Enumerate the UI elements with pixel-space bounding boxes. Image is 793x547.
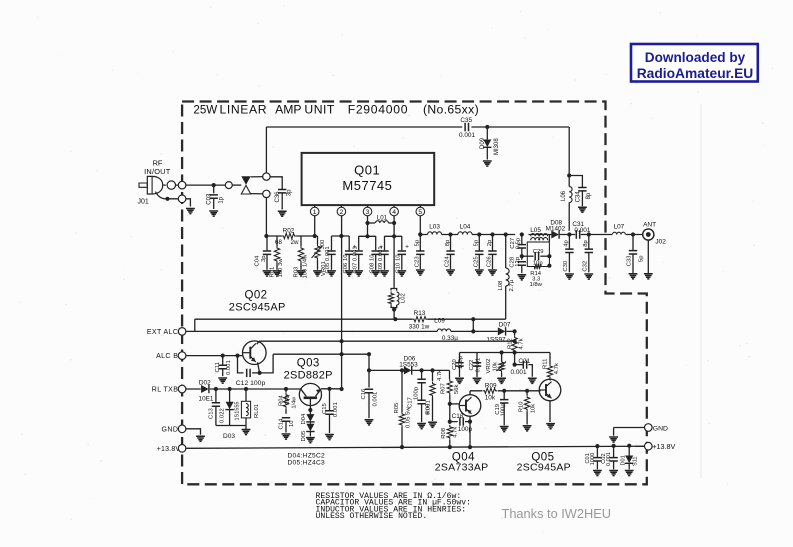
- svg-text:8p: 8p: [445, 239, 451, 246]
- terminal +13.8V left: [178, 445, 186, 453]
- label C27: [510, 238, 516, 249]
- svg-text:1/4w: 1/4w: [291, 397, 297, 409]
- label C04 C04: [255, 255, 261, 267]
- resistor R06: [430, 370, 435, 421]
- svg-text:R01: R01: [270, 267, 276, 278]
- node R12 rail: [513, 339, 517, 343]
- resistor R09: [483, 388, 498, 393]
- svg-text:2SC945AP: 2SC945AP: [517, 462, 571, 474]
- svg-text:C21: C21: [518, 358, 530, 365]
- node L06/C34 junction: [567, 173, 571, 177]
- capacitor C06: [345, 236, 353, 270]
- label R12: [507, 338, 513, 349]
- pin 3 circle: [363, 205, 372, 216]
- capacitor C17b: [417, 400, 425, 422]
- svg-text:C11: C11: [215, 362, 221, 372]
- label C23 value: [415, 239, 421, 246]
- ground (C17): [417, 424, 426, 429]
- label 2SD882P: [284, 369, 333, 381]
- wire R07 to Q04 base: [448, 402, 460, 406]
- svg-text:100 3w: 100 3w: [278, 258, 284, 278]
- node C26: [490, 232, 494, 236]
- svg-text:F2904000: F2904000: [348, 103, 409, 117]
- capacitor C27: [518, 235, 526, 260]
- label R14 3.3: [532, 277, 541, 283]
- label C19: [495, 404, 501, 415]
- node L08 tap: [504, 232, 508, 236]
- wire right GND stub: [614, 428, 645, 436]
- label R05: [394, 402, 400, 414]
- label C30 value 4p: [563, 240, 569, 247]
- wire J01 tip: [163, 184, 179, 186]
- inductor L03: [428, 232, 442, 235]
- svg-text:R13: R13: [414, 310, 426, 317]
- op-amp U1 Q01 module box: [302, 153, 435, 205]
- ground (C22): [473, 378, 482, 383]
- inductor L04: [458, 232, 472, 235]
- svg-text:C15: C15: [322, 402, 328, 414]
- wire upper throw to C36: [270, 177, 282, 190]
- notes unless otherwise: [316, 512, 428, 521]
- wire top rail drop to L06: [568, 127, 570, 187]
- thanks credit: [502, 506, 612, 521]
- capacitor C17a: [417, 370, 425, 400]
- svg-text:4p: 4p: [563, 240, 569, 247]
- node pin1 bias: [313, 234, 317, 238]
- node D06 left: [367, 368, 371, 372]
- RadioAmateur badge box: [631, 44, 758, 82]
- label C20: [452, 358, 458, 370]
- title (No.65xx): [423, 103, 479, 117]
- label C21: [518, 358, 530, 365]
- svg-text:C14: C14: [279, 418, 285, 430]
- svg-text:2SC945AP: 2SC945AP: [229, 301, 286, 313]
- label R12 4.7k: [518, 338, 524, 349]
- svg-text:D09: D09: [480, 137, 486, 149]
- label C04 3p: [261, 255, 267, 262]
- label C28 value: [515, 256, 521, 267]
- label Q05: [531, 451, 554, 463]
- label D02: [199, 380, 211, 387]
- terminal +13.8V right: [645, 442, 653, 450]
- ground (C10): [397, 271, 406, 276]
- J01 sleeve lead: [156, 192, 179, 201]
- svg-text:+13.8V: +13.8V: [652, 442, 675, 451]
- svg-text:1SS97: 1SS97: [486, 336, 506, 343]
- svg-text:L05: L05: [530, 227, 541, 234]
- plus mark C08: [379, 244, 383, 251]
- ground (C24): [446, 270, 455, 275]
- ground (D09): [483, 161, 492, 166]
- node R12 top: [513, 329, 517, 333]
- svg-text:R12: R12: [507, 338, 513, 349]
- label R11 4.7k: [554, 363, 560, 374]
- svg-text:4.7k: 4.7k: [518, 338, 524, 349]
- label C05 C05 0.001: [325, 246, 331, 273]
- label C12 100p: [236, 380, 266, 387]
- node bias relay: [264, 234, 268, 238]
- label C07 C07 0.001: [352, 246, 358, 273]
- label D09: [480, 137, 486, 149]
- node C17 tap: [420, 368, 424, 372]
- trimpot VR02: [497, 360, 506, 377]
- node box right: [547, 254, 551, 268]
- svg-text:56k: 56k: [454, 384, 460, 394]
- label D03: [223, 433, 235, 440]
- svg-text:10k: 10k: [531, 404, 537, 414]
- label C13 value: [220, 408, 226, 423]
- pin 2 circle: [337, 205, 346, 216]
- label VR01 300: [320, 239, 326, 250]
- svg-text:1S553: 1S553: [399, 361, 418, 368]
- svg-text:ALC B: ALC B: [156, 353, 178, 360]
- label 1S553: [399, 361, 418, 368]
- label R13 330 1w: [409, 323, 430, 330]
- capacitor C03: [210, 185, 218, 209]
- resistor R04: [283, 389, 288, 414]
- label RF IN/OUT: [144, 159, 171, 177]
- ground (C26): [488, 270, 497, 275]
- ground (C04): [263, 271, 272, 276]
- svg-text:MI308: MI308: [494, 138, 500, 155]
- capacitor C01: [593, 444, 601, 469]
- capacitor C16: [365, 389, 373, 418]
- resistor R14: [532, 264, 543, 269]
- label C36: [275, 191, 281, 203]
- label R06 4.7k: [437, 370, 443, 381]
- svg-text:C04: C04: [255, 255, 261, 267]
- ground (C01): [593, 471, 602, 476]
- label R08 4.7k: [453, 427, 459, 438]
- svg-text:1/8w: 1/8w: [529, 282, 542, 288]
- svg-text:L04: L04: [460, 224, 471, 231]
- pin 1 circle: [310, 205, 319, 216]
- label L02: [401, 293, 407, 303]
- ground (left GND): [196, 436, 205, 441]
- label C15 value: [333, 402, 339, 417]
- svg-text:5p: 5p: [638, 255, 644, 262]
- capacitor C30: [565, 235, 573, 273]
- capacitor C34: [578, 188, 586, 207]
- wire R09 line: [470, 390, 541, 392]
- capacitor C23: [416, 235, 424, 270]
- label VR02: [486, 359, 492, 374]
- label C14: [279, 418, 285, 430]
- label 2SA733AP: [435, 462, 489, 474]
- svg-text:2: 2: [340, 209, 344, 216]
- svg-text:3: 3: [366, 209, 370, 216]
- ground (VR01): [313, 271, 322, 276]
- node D09 branch: [485, 125, 489, 129]
- ground (C03): [209, 211, 218, 216]
- label C33: [626, 255, 632, 267]
- transistor Q05: [539, 379, 561, 401]
- node C27 tap: [520, 232, 524, 236]
- svg-text:C10 10: C10 10: [396, 254, 402, 274]
- svg-text:C34: C34: [575, 191, 581, 203]
- label R09 10k: [485, 394, 496, 401]
- inductor L09: [437, 329, 451, 331]
- capacitor C20: [455, 362, 463, 378]
- label C25: [473, 256, 479, 268]
- label C18 100p: [458, 426, 473, 433]
- svg-text:5: 5: [418, 209, 422, 216]
- diode D06: [404, 366, 412, 374]
- node pin4 stub: [392, 234, 396, 238]
- wire bias feed row: [460, 353, 502, 363]
- label D01: [620, 455, 626, 465]
- node C19 tap: [502, 389, 506, 393]
- svg-text:C03: C03: [207, 193, 213, 205]
- capacitor C19: [500, 391, 508, 426]
- ground (RL01): [242, 430, 251, 435]
- ground (C19): [500, 427, 509, 432]
- label C06 C06 10: [343, 254, 349, 274]
- svg-text:M1402: M1402: [546, 226, 566, 233]
- svg-text:R02: R02: [283, 227, 295, 234]
- ground (R10): [523, 426, 532, 431]
- label R03 100 1/4w: [303, 254, 309, 279]
- svg-text:4: 4: [392, 209, 396, 216]
- label C17 0.001: [425, 400, 431, 415]
- wire RL TXB line: [185, 388, 300, 390]
- label C28: [509, 256, 515, 268]
- plus mark C06: [353, 244, 357, 251]
- svg-text:0.5p: 0.5p: [515, 237, 521, 249]
- node C03 junction: [212, 183, 216, 187]
- svg-text:1000: 1000: [590, 453, 596, 465]
- svg-text:RL01: RL01: [254, 404, 260, 418]
- label C09 C09 0.001: [378, 246, 384, 273]
- svg-text:0.001: 0.001: [606, 452, 612, 466]
- notes inductor values: [316, 505, 467, 514]
- diode D04: [306, 414, 314, 424]
- svg-text:L08: L08: [498, 280, 504, 291]
- svg-text:C32: C32: [583, 261, 589, 272]
- label R07: [441, 383, 447, 394]
- svg-text:0.001: 0.001: [333, 402, 339, 417]
- svg-text:2w: 2w: [291, 239, 299, 246]
- ground (C20): [455, 378, 464, 383]
- label C08 C08 10: [369, 254, 375, 274]
- relay RL01: [241, 389, 250, 430]
- svg-text:LINEAR: LINEAR: [220, 103, 268, 117]
- svg-text:330 1w: 330 1w: [409, 323, 430, 330]
- label L08 value: [509, 279, 515, 291]
- node C23: [418, 232, 422, 236]
- svg-text:S11: S11: [633, 456, 639, 466]
- plus mark C10: [405, 244, 409, 251]
- label C23: [414, 256, 420, 268]
- label MI308: [494, 138, 500, 155]
- node R10 tap: [525, 389, 529, 393]
- ground (VR02): [497, 378, 506, 383]
- ground (C11): [218, 378, 227, 383]
- label D04: [301, 413, 307, 425]
- inductor L08: [506, 235, 509, 320]
- svg-text:UNLESS OTHERWISE NOTED.: UNLESS OTHERWISE NOTED.: [316, 512, 428, 521]
- terminal GND right: [645, 424, 653, 432]
- svg-text:Q02: Q02: [245, 289, 268, 301]
- svg-text:RF: RF: [153, 159, 163, 168]
- svg-text:2SA733AP: 2SA733AP: [435, 462, 489, 474]
- svg-text:3p: 3p: [287, 189, 293, 196]
- label C27 value: [515, 237, 521, 249]
- wire RF input line: [185, 184, 225, 186]
- label R10 10k: [531, 404, 537, 414]
- label M57745: [342, 178, 392, 193]
- capacitor C15: [325, 389, 333, 433]
- faint scan fold line: [700, 104, 702, 478]
- capacitor C35: [465, 123, 468, 131]
- svg-text:25W: 25W: [193, 104, 217, 117]
- wire Q02 emitter to C12: [252, 362, 262, 375]
- svg-text:L09: L09: [434, 318, 445, 325]
- svg-text:R06: R06: [426, 403, 432, 415]
- label S11: [633, 456, 639, 466]
- label R13: [414, 310, 426, 317]
- resistor R12: [512, 331, 517, 352]
- wire Q04 emitter down: [468, 416, 472, 447]
- svg-text:RL TXB: RL TXB: [152, 387, 179, 394]
- svg-text:10k: 10k: [492, 362, 498, 372]
- capacitor C18: [460, 417, 470, 425]
- node pin2 rail: [340, 339, 344, 343]
- ground (C23): [416, 270, 425, 275]
- svg-text:C22: C22: [469, 360, 475, 371]
- label C13: [208, 407, 214, 419]
- svg-text:10E1: 10E1: [199, 395, 214, 402]
- wire pin4 stub: [385, 235, 402, 237]
- label L06: [561, 190, 567, 201]
- label C35: [460, 117, 472, 124]
- capacitor C05: [327, 236, 335, 270]
- label C16 value: [373, 392, 379, 407]
- label C35 value: [459, 132, 475, 139]
- svg-text:UNIT: UNIT: [304, 103, 334, 117]
- diode D08: [551, 230, 559, 238]
- capacitor C07: [355, 236, 363, 270]
- title F2904000: [348, 103, 409, 117]
- svg-text:R11: R11: [543, 359, 549, 369]
- ground (J02): [644, 274, 653, 279]
- svg-text:J02: J02: [655, 239, 666, 246]
- label L01: [377, 215, 388, 222]
- wire contact to lower throw: [251, 193, 264, 195]
- label J02: [655, 239, 666, 246]
- trimpot VR01: [312, 236, 323, 270]
- wire C18 base leg: [450, 404, 458, 422]
- label M1402: [546, 226, 566, 233]
- diode D03: [225, 389, 233, 426]
- label R09: [485, 382, 497, 389]
- label C34 value 8p: [586, 192, 592, 199]
- inductor L02: [388, 289, 399, 320]
- svg-text:ANT: ANT: [643, 222, 656, 229]
- svg-text:C24: C24: [445, 256, 451, 268]
- diode D02: [201, 385, 209, 393]
- svg-text:D02: D02: [199, 380, 211, 387]
- label C22 0.001: [475, 358, 481, 373]
- label Q02: [245, 289, 268, 301]
- label R04: [278, 394, 284, 406]
- svg-text:+: +: [353, 244, 357, 251]
- diode D05: [306, 424, 314, 437]
- node pin3 stub: [365, 234, 369, 238]
- label C17: [408, 397, 414, 408]
- svg-text:0.001: 0.001: [226, 360, 232, 375]
- diode D07: [498, 327, 506, 335]
- svg-text:R03: R03: [294, 266, 300, 278]
- svg-text:C29: C29: [533, 249, 544, 255]
- svg-text:4.7k: 4.7k: [554, 363, 560, 374]
- label R01 100 3w: [278, 258, 284, 278]
- ground (C15): [325, 435, 334, 440]
- label C02: [601, 453, 607, 463]
- capacitor C02: [609, 444, 617, 470]
- wire lower throw to bias rail: [265, 197, 267, 236]
- capacitor C04: [263, 236, 271, 270]
- notes capacitor values: [316, 499, 471, 508]
- resistor R05: [399, 368, 404, 447]
- ground (C02): [609, 471, 618, 476]
- relay contact arm triangles: [241, 176, 250, 194]
- resistor R13: [412, 317, 428, 322]
- relay throw contact lower: [263, 190, 270, 197]
- wire Q05 collector: [549, 379, 551, 380]
- svg-text:C36: C36: [275, 191, 281, 203]
- wire sleeve to ground: [185, 199, 190, 207]
- svg-text:5p: 5p: [415, 239, 421, 246]
- wire upper throw to top rail: [265, 127, 267, 174]
- svg-text:100 1/4w: 100 1/4w: [303, 254, 309, 279]
- svg-text:1S1555: 1S1555: [235, 402, 241, 421]
- label C22: [469, 360, 475, 371]
- label 10E1: [199, 395, 214, 402]
- svg-text:R07: R07: [441, 383, 447, 394]
- node R05 rail: [400, 445, 404, 449]
- svg-text:L07: L07: [614, 224, 625, 231]
- label D08: [550, 220, 562, 227]
- inductor L07: [612, 232, 625, 234]
- ground (C09): [380, 271, 389, 276]
- label C14 10: [289, 420, 295, 427]
- ground (C06): [345, 271, 354, 276]
- title 25W LINEAR AMP UNIT: [193, 103, 334, 117]
- ground (R01): [273, 271, 282, 276]
- capacitor C11: [219, 356, 227, 377]
- svg-text:R04: R04: [278, 394, 284, 406]
- label C20 100p: [458, 355, 464, 369]
- svg-text:C12 100p: C12 100p: [236, 380, 266, 387]
- svg-text:0.001: 0.001: [475, 358, 481, 373]
- wire pin3 stub: [359, 235, 376, 237]
- inductor L06: [569, 187, 572, 231]
- resistor R08: [447, 420, 452, 448]
- svg-text:1: 1: [313, 209, 317, 216]
- label J01: [138, 199, 149, 206]
- node L06 main: [567, 232, 571, 236]
- label 2SC945AP Q02: [229, 301, 286, 313]
- resistor R02: [282, 233, 297, 238]
- label C10 C10 10: [396, 254, 402, 274]
- label GND left: [162, 427, 179, 434]
- wire C16 drop: [368, 354, 370, 387]
- ground (D01): [625, 471, 634, 476]
- label D06: [404, 355, 416, 362]
- node C32: [587, 232, 591, 236]
- svg-text:1p: 1p: [218, 196, 224, 203]
